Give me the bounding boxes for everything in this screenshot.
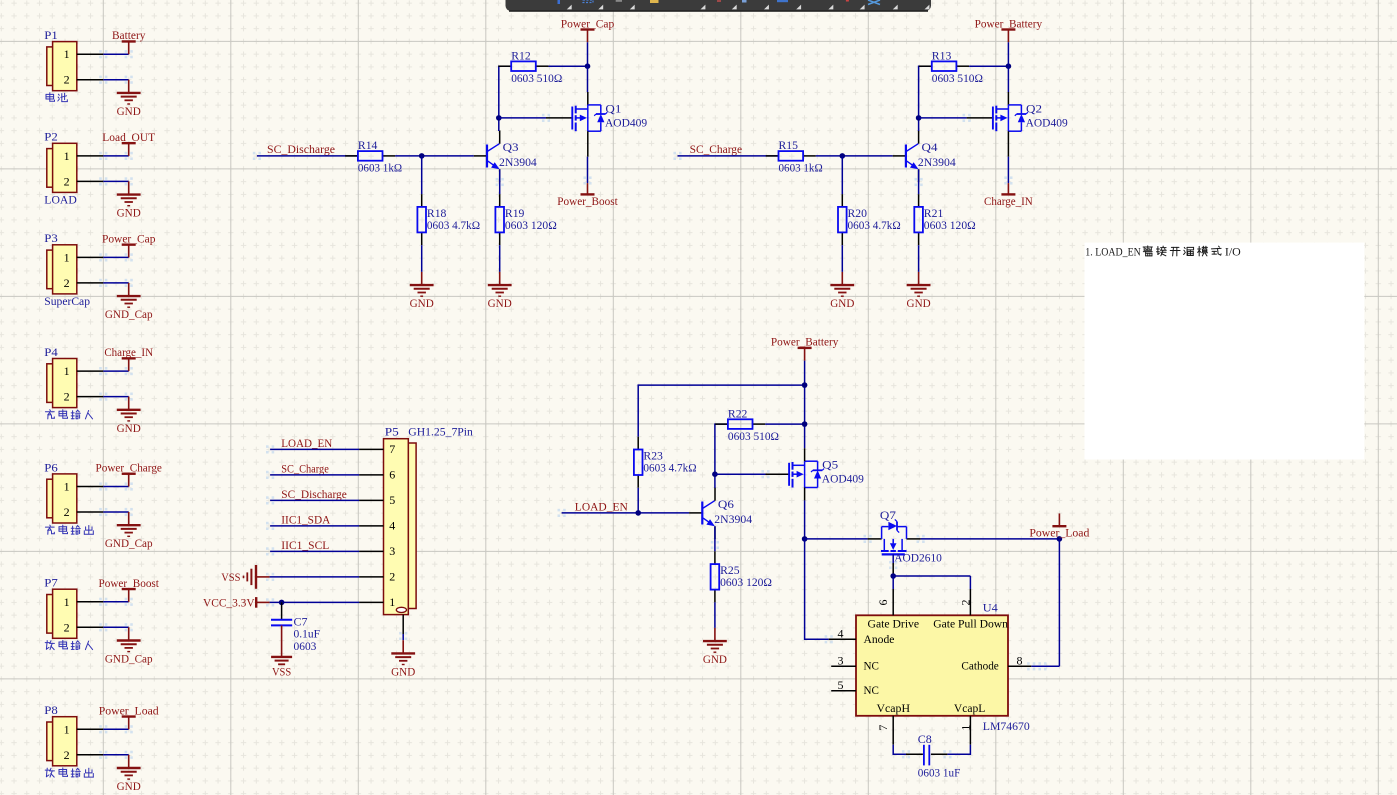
wire [103,256,128,258]
pin 3 of U4 [831,654,856,668]
note box [1085,243,1365,460]
wire [499,169,501,194]
net label SC_Discharge [267,142,335,156]
svg-text:0603 120Ω: 0603 120Ω [924,218,976,232]
svg-text:1: 1 [389,595,395,609]
resistor R13 [919,48,983,85]
svg-text:Battery: Battery [112,28,146,42]
svg-text:Gate Pull Down: Gate Pull Down [933,616,1008,630]
wire [1007,157,1009,183]
svg-text:IIC1_SCL: IIC1_SCL [281,538,329,552]
svg-text:1: 1 [64,149,70,163]
wire [918,245,920,272]
wire [841,156,843,194]
svg-text:0603 1kΩ: 0603 1kΩ [779,161,823,175]
pin 1 of U4 [958,716,972,745]
wire [714,602,716,628]
wire [402,634,404,640]
net label IIC1_SCL [281,538,329,552]
connector P5 [384,424,473,614]
svg-text:VSS: VSS [272,664,291,678]
svg-text:Power_Charge: Power_Charge [96,461,162,475]
label VcapL [954,701,985,715]
pin 2 of P3 [77,282,104,284]
wire [587,157,589,183]
svg-text:GND: GND [830,296,854,310]
pin 1 of P4 [77,370,104,372]
svg-text:NC: NC [864,683,879,697]
ground GND [117,755,141,793]
svg-text:GND: GND [410,296,434,310]
svg-text:2: 2 [64,174,70,188]
connector P3 [44,231,77,294]
IC U4 [856,601,1030,734]
svg-text:GND_Cap: GND_Cap [105,307,153,321]
pin gate Q7 [892,563,894,576]
ground GND [117,80,141,118]
svg-text:GND: GND [488,296,512,310]
svg-text:R13: R13 [932,48,952,62]
svg-text:1: 1 [958,725,972,731]
transistor Q6 [689,488,752,540]
svg-text:R12: R12 [511,48,531,62]
svg-text:GND: GND [117,104,141,118]
label LOAD [44,193,77,207]
label 放电输入 [45,640,92,649]
ground GND_Cap [105,627,153,665]
wire [103,180,128,182]
svg-text:P1: P1 [44,28,58,42]
svg-text:Load_OUT: Load_OUT [102,130,155,144]
pin shield of P5 [402,615,404,634]
node drain R22 [802,421,808,427]
label Anode [864,632,895,646]
resistor R22 [715,406,779,443]
wire [804,500,806,539]
wire [804,361,806,449]
pin source Q2 [1007,131,1009,157]
svg-text:Q6: Q6 [718,497,734,511]
label 充电输入 [45,410,92,419]
svg-text:GND_Cap: GND_Cap [105,536,153,550]
wire [270,601,360,603]
resistor R18 [417,194,480,245]
pin 1 of P3 [77,256,104,258]
svg-text:GH1.25_7Pin: GH1.25_7Pin [408,424,473,438]
pin 5 of U4 [831,678,856,692]
svg-text:2: 2 [64,505,70,519]
wire [103,155,128,157]
wire [714,474,716,488]
ground GND [703,628,727,666]
net label SC_Charge [690,142,743,156]
svg-text:R22: R22 [728,406,748,420]
wire [892,576,894,589]
pin 2 of P2 [77,180,104,182]
net label SC_Discharge [281,487,347,501]
svg-text:Anode: Anode [864,632,895,646]
pin 4 of U4 [829,627,856,641]
svg-text:Power_Cap: Power_Cap [102,231,156,245]
svg-text:Gate Drive: Gate Drive [868,616,920,630]
connector P1 [44,28,77,91]
pin drain Q2 [1007,92,1009,105]
svg-text:VcapH: VcapH [877,701,911,715]
svg-text:GND: GND [117,421,141,435]
power VCC_3.3V [203,595,270,609]
wire [1007,42,1009,92]
svg-text:AOD2610: AOD2610 [894,551,942,565]
transistor Q4 [893,131,956,183]
wire [421,245,423,272]
transistor Q5 [789,458,864,488]
wire [892,554,894,563]
node gate Q1 [496,115,502,121]
wire [103,370,128,372]
svg-text:Q1: Q1 [605,101,621,115]
node base Q4 [840,153,846,159]
pin 8 of U4 [1008,653,1031,667]
wire [969,576,971,589]
svg-text:P4: P4 [44,345,58,359]
pin 2 of U4 [958,589,972,615]
svg-text:AOD409: AOD409 [1026,115,1068,129]
label NC [864,683,879,697]
label VcapH [877,701,911,715]
wire [103,79,128,81]
pin 2 of P6 [77,511,104,513]
wire [587,42,589,92]
svg-text:Power_Boost: Power_Boost [557,194,618,208]
svg-text:1. LOAD_EN: 1. LOAD_EN [1085,244,1141,258]
node gate drive [890,573,896,579]
node LOAD_EN [635,510,641,516]
wire [921,538,1060,540]
pin 7 of U4 [876,716,893,745]
label Gate Drive [868,616,920,630]
svg-text:SC_Charge: SC_Charge [690,142,743,156]
svg-text:SuperCap: SuperCap [44,294,90,308]
label NC [864,659,879,673]
wire [562,512,690,514]
transistor Q1 [572,101,647,131]
svg-text:VCC_3.3V: VCC_3.3V [203,595,255,609]
power Battery [112,28,146,54]
pin source Q1 [587,131,589,157]
node source Q5 [802,536,808,542]
svg-text:2N3904: 2N3904 [714,512,752,526]
svg-text:GND: GND [117,779,141,793]
wire [893,575,970,577]
svg-text:5: 5 [389,493,395,507]
ground GND [830,272,854,310]
wire [919,66,932,131]
toolbar [506,0,932,12]
wire [103,486,128,488]
svg-text:0603: 0603 [294,639,317,653]
pin 2 of P7 [77,626,104,628]
svg-text:GND_Cap: GND_Cap [105,652,153,666]
wire [841,245,843,272]
resistor R15 [766,138,823,175]
svg-text:P2: P2 [44,130,58,144]
pin 6 of U4 [876,589,893,615]
svg-text:0603 120Ω: 0603 120Ω [720,575,772,589]
wire [715,473,766,475]
wire [257,155,358,157]
svg-text:C8: C8 [918,732,932,746]
ground GND_Cap [105,283,153,321]
resistor R20 [838,194,901,245]
svg-text:0603 510Ω: 0603 510Ω [511,71,562,85]
svg-text:0603 510Ω: 0603 510Ω [728,429,779,443]
svg-text:Power_Cap: Power_Cap [561,16,615,30]
resistor R14 [345,138,402,175]
connector P8 [44,703,77,766]
pin 1 of P8 [77,728,104,730]
power VSS [221,565,269,589]
pin 1 of P5 [359,595,395,609]
net label SC_Charge [281,462,329,476]
wire [947,745,970,755]
svg-text:3: 3 [838,654,844,668]
svg-text:4: 4 [838,627,844,641]
svg-text:P5: P5 [385,424,399,438]
svg-text:P3: P3 [44,231,58,245]
svg-text:I/O: I/O [1225,244,1241,258]
wire [805,538,868,540]
wire [421,156,423,194]
pin 4 of P5 [359,519,395,533]
wire [103,601,128,603]
svg-text:Cathode: Cathode [961,659,998,673]
svg-text:SC_Charge: SC_Charge [281,462,329,476]
svg-text:2: 2 [64,276,70,290]
power Load_OUT [102,130,155,156]
wire [1031,665,1059,667]
pin 3 of P5 [359,544,395,558]
node Power_Battery mid [802,382,808,388]
connector P4 [44,345,77,408]
power Power_Boost [99,576,160,602]
svg-text:GND: GND [907,296,931,310]
node gate Q2 [916,115,922,121]
pin 2 of P4 [77,396,104,398]
power VSS below C7 [271,625,292,678]
pin 2 of P8 [77,754,104,756]
resistor R12 [498,48,562,85]
svg-text:Q4: Q4 [922,140,938,154]
svg-text:2: 2 [389,570,395,584]
wire [499,117,546,119]
wire [499,245,501,272]
pin drain Q1 [587,92,589,105]
svg-text:R15: R15 [779,138,799,152]
wire [103,396,128,398]
svg-text:LOAD: LOAD [44,193,77,207]
svg-text:5: 5 [838,678,844,692]
svg-text:Charge_IN: Charge_IN [984,194,1033,208]
wire [1058,539,1060,666]
pin 2 of P1 [77,79,104,81]
pin 2 of P5 [359,570,395,584]
wire [103,626,128,628]
svg-text:1: 1 [64,47,70,61]
power Power_Cap [102,231,156,257]
power Power_Load [1029,513,1089,539]
svg-text:0603 1uF: 0603 1uF [918,766,961,780]
svg-text:7: 7 [876,725,890,731]
pin 1 of P2 [77,155,104,157]
svg-text:8: 8 [1017,653,1023,667]
power Charge_IN [104,345,153,371]
svg-text:SC_Discharge: SC_Discharge [281,487,347,501]
svg-text:VSS: VSS [221,570,240,584]
svg-text:2: 2 [64,620,70,634]
ground GND [117,397,141,435]
svg-text:0603 4.7kΩ: 0603 4.7kΩ [643,461,696,475]
ground GND_Cap [105,512,153,550]
power Power_Load [99,703,159,729]
svg-text:Charge_IN: Charge_IN [104,345,153,359]
node Power_Load [1057,536,1063,542]
svg-text:1: 1 [64,722,70,736]
ground GND [117,181,141,219]
pin 1 of P1 [77,53,104,55]
ground GND [488,272,512,310]
wire [678,155,779,157]
power Power_Cap [561,16,615,42]
svg-text:GND: GND [391,664,415,678]
wire [765,423,804,425]
wire [893,745,906,755]
label 充电输出 [45,525,93,534]
label 放电输出 [45,768,93,777]
label 电池 [46,93,67,102]
svg-text:0603 510Ω: 0603 510Ω [932,71,983,85]
wire [816,155,893,157]
svg-text:SC_Discharge: SC_Discharge [267,142,335,156]
pin drain Q5 [804,448,806,461]
pin gate Q1 [546,117,572,119]
node gate Q5 [712,471,718,477]
power Power_Charge [96,461,162,487]
svg-text:0603 1kΩ: 0603 1kΩ [358,161,402,175]
svg-text:2: 2 [64,390,70,404]
transistor Q2 [993,101,1068,131]
label Cathode [961,659,998,673]
wire [919,117,967,119]
svg-text:Power_Battery: Power_Battery [771,335,839,349]
svg-text:AOD409: AOD409 [605,115,647,129]
wire [714,526,716,551]
svg-text:Q7: Q7 [880,508,896,522]
resistor R21 [914,194,975,245]
svg-text:2N3904: 2N3904 [918,155,956,169]
svg-text:0603 4.7kΩ: 0603 4.7kΩ [427,218,480,232]
svg-text:1: 1 [64,480,70,494]
wire [103,754,128,756]
wire [270,448,359,450]
svg-text:P6: P6 [44,460,58,474]
svg-text:0603 4.7kΩ: 0603 4.7kΩ [848,218,901,232]
capacitor C8 [906,732,961,780]
wire [270,525,359,527]
svg-text:IIC1_SDA: IIC1_SDA [281,513,330,527]
node Power_Battery [1006,63,1012,69]
connector P2 [44,130,77,193]
svg-text:GND: GND [703,652,727,666]
svg-text:6: 6 [876,600,890,606]
wire [715,424,728,474]
ground GND [410,272,434,310]
connection markers [99,50,1046,759]
wire [969,65,1008,67]
svg-text:6: 6 [389,468,395,482]
svg-text:1: 1 [64,595,70,609]
svg-text:0603 120Ω: 0603 120Ω [505,218,557,232]
svg-text:R14: R14 [358,138,378,152]
connector P6 [44,460,77,523]
svg-text:4: 4 [389,519,395,533]
svg-text:1: 1 [64,364,70,378]
svg-text:1: 1 [64,250,70,264]
wire [103,53,128,55]
svg-text:Power_Battery: Power_Battery [975,16,1043,30]
pin 1 of P7 [77,601,104,603]
ground GND [391,640,415,678]
svg-text:2N3904: 2N3904 [499,155,537,169]
transistor Q3 [474,131,537,183]
pin gate Q5 [766,473,790,475]
label SuperCap [44,294,90,308]
svg-text:U4: U4 [983,601,998,615]
node base Q3 [419,153,425,159]
svg-text:7: 7 [389,442,395,456]
svg-text:P7: P7 [44,576,58,590]
svg-text:Q5: Q5 [822,458,838,472]
svg-text:NC: NC [864,659,879,673]
svg-text:Power_Load: Power_Load [99,703,159,717]
wire [270,499,359,501]
wire [499,66,511,131]
wire [549,65,588,67]
wire [103,728,128,730]
svg-text:2: 2 [64,73,70,87]
pin source Q5 [804,488,806,501]
resistor R23 [634,437,697,488]
resistor R25 [711,551,772,602]
svg-text:3: 3 [389,544,395,558]
net label LOAD_EN [575,499,628,513]
svg-text:VcapL: VcapL [954,701,985,715]
wire [270,474,359,476]
wire [637,488,639,513]
power Power_Battery [975,16,1043,42]
wire [270,550,359,552]
wire [638,385,804,437]
wire [103,282,128,284]
node VCC_3.3V [279,600,285,606]
svg-text:2: 2 [958,600,972,606]
svg-text:Power_Load: Power_Load [1029,526,1089,540]
svg-text:GND: GND [117,206,141,220]
transistor Q7 [868,508,942,565]
svg-text:2: 2 [64,748,70,762]
svg-text:LM74670: LM74670 [983,719,1030,733]
capacitor C7 [271,602,320,652]
power Power_Boost [557,183,618,208]
